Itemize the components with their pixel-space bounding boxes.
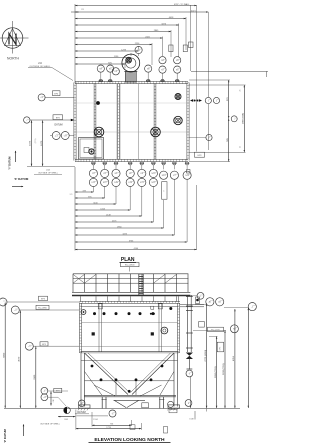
svg-text:4787 - TO WALL: 4787 - TO WALL	[174, 3, 190, 6]
svg-text:610: 610	[53, 399, 55, 402]
svg-text:2690 (TOS): 2690 (TOS)	[215, 366, 217, 378]
svg-text:M: M	[81, 403, 83, 405]
svg-text:3630 (TOS): 3630 (TOS)	[223, 363, 225, 375]
svg-text:8: 8	[164, 191, 166, 192]
svg-text:EL(+)2225: EL(+)2225	[211, 330, 219, 332]
svg-text:'Z' DATUM: 'Z' DATUM	[3, 428, 7, 442]
svg-text:DATUM: DATUM	[55, 124, 63, 127]
svg-text:EP3: EP3	[42, 344, 46, 346]
svg-text:NORTH: NORTH	[7, 56, 20, 60]
svg-text:'X' DATUM: 'X' DATUM	[14, 177, 29, 181]
svg-text:EL(+)5800: EL(+)5800	[125, 265, 135, 267]
svg-text:OUTSIDE OF SHELL: OUTSIDE OF SHELL	[40, 424, 61, 426]
svg-text:4570: 4570	[19, 356, 21, 362]
svg-text:35: 35	[240, 146, 242, 148]
svg-text:DATUM: DATUM	[77, 411, 85, 414]
svg-text:4051: 4051	[233, 355, 235, 361]
svg-text:'Y' DATUM: 'Y' DATUM	[8, 157, 12, 170]
svg-text:2860 (O/A): 2860 (O/A)	[242, 113, 245, 124]
svg-text:5800: 5800	[3, 352, 5, 358]
svg-text:2775 (1219): 2775 (1219)	[205, 350, 207, 362]
svg-text:EP5: EP5	[220, 347, 222, 350]
svg-text:(PCS): (PCS)	[35, 138, 37, 143]
svg-text:125: 125	[81, 9, 84, 11]
svg-text:EP3: EP3	[56, 391, 60, 393]
svg-text:756: 756	[110, 424, 113, 426]
svg-text:35: 35	[240, 90, 242, 92]
svg-text:976: 976	[70, 194, 73, 196]
svg-text:CH: CH	[64, 135, 68, 137]
svg-text:1675: 1675	[30, 140, 32, 146]
svg-text:1538: 1538	[189, 419, 193, 421]
svg-text:1670: 1670	[41, 140, 43, 146]
svg-text:EL(+)3860: EL(+)3860	[38, 308, 46, 310]
svg-text:3100: 3100	[34, 374, 36, 380]
